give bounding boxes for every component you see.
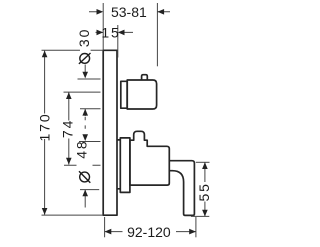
thermostat knob body [127, 80, 156, 109]
label dia symbol of 48 (drawn) [79, 171, 90, 182]
svg-text:53-81: 53-81 [111, 4, 147, 20]
dim 92-120 line [105, 231, 196, 233]
extension line: wall / plate back (top) [102, 3, 104, 50]
lower rosette sleeve [120, 138, 130, 193]
extension line: dia74 top [64, 91, 101, 93]
arrow dia30 bottom (up) [82, 109, 88, 116]
svg-text:15: 15 [101, 25, 120, 41]
svg-text:30: 30 [76, 28, 92, 47]
shared dashed tail dia30/dia48 [84, 117, 86, 134]
flange ring stubs behind sleeve [117, 140, 120, 189]
extension line: knob front [156, 3, 158, 66]
dim dia48 bottom tail [84, 190, 86, 208]
dim 53-81 tails [89, 11, 170, 13]
extension line: lever bottom [191, 215, 209, 217]
arrow dia74 top (up) [66, 92, 72, 99]
arrow 92-120 right [189, 229, 196, 235]
arrow 15 left [97, 30, 104, 36]
svg-text:92-120: 92-120 [127, 224, 171, 240]
svg-text:74: 74 [59, 119, 75, 138]
dim dia30 bottom tail [84, 109, 86, 116]
safety button on knob [142, 75, 148, 80]
dim 15 tails [96, 31, 134, 33]
extension line: knob bottom [80, 108, 101, 110]
dim 55 line [204, 162, 206, 216]
arrow dia48 top (down) [82, 134, 88, 141]
extension line: handle tip [195, 217, 197, 237]
lever handle [169, 161, 194, 216]
arrow 53-81 left [97, 9, 104, 15]
extension line: wall (bottom dim) [104, 217, 106, 237]
arrow 15 right [118, 30, 125, 36]
extension line: hub top [79, 141, 101, 143]
svg-text:170: 170 [36, 112, 52, 141]
extension line: lever arm top [196, 161, 210, 163]
thermostat knob base ring [121, 81, 127, 108]
extension line: plate bottom [42, 214, 104, 216]
arrow 53-81 right [157, 9, 164, 15]
arrow dia30 top (down) [82, 72, 88, 79]
extension line: dia74 bottom [64, 164, 101, 166]
extension line: hub bottom [80, 189, 99, 191]
svg-text:48: 48 [74, 139, 90, 158]
arrow 170 bottom (down) [42, 208, 48, 215]
label dia symbol of 30 (drawn) [79, 53, 91, 64]
arrow 170 top (up) [42, 51, 48, 58]
arrow 92-120 left [105, 229, 112, 235]
dim 170 line [44, 51, 46, 215]
svg-text:55: 55 [196, 182, 212, 201]
dim dia74 line [68, 92, 70, 164]
dim dia30 leader [84, 65, 86, 73]
extension line: plate front [117, 25, 119, 58]
arrow dia48 bottom (up) [82, 190, 88, 197]
volume-control hub with lever cap [130, 131, 169, 185]
escutcheon plate (side view) [103, 50, 117, 215]
arrow dia74 bottom (down) [66, 158, 72, 165]
extension line: plate top [42, 49, 104, 51]
extension line: knob top [78, 78, 101, 80]
arrow 55 bottom (down) [202, 210, 208, 217]
arrow 55 top (up) [202, 162, 208, 169]
